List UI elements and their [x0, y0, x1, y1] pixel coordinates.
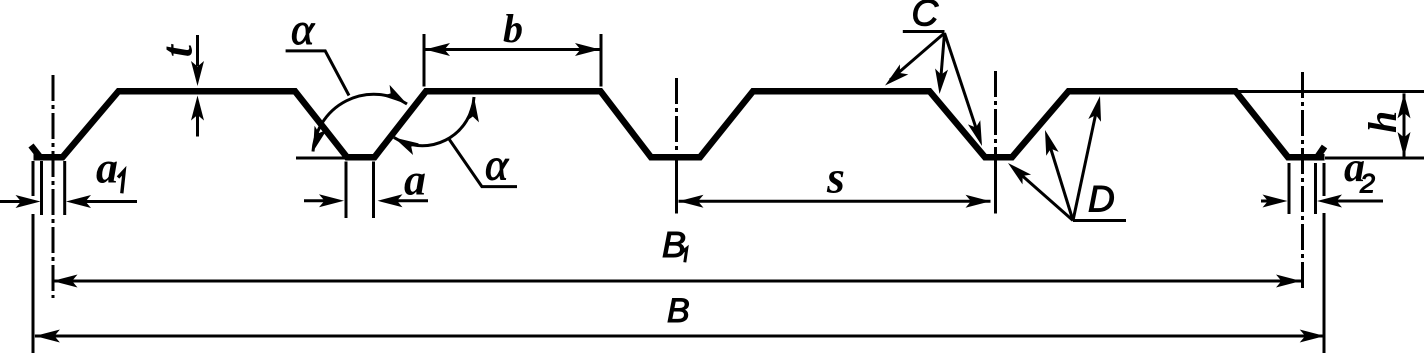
svg-text:B: B	[662, 224, 686, 265]
svg-text:b: b	[503, 6, 523, 51]
alpha1 label underline + leader	[286, 51, 349, 96]
dimension t lower arrow	[191, 96, 204, 121]
dimension h top arrowhead	[1398, 93, 1411, 118]
C leader arrow to bottom corner	[945, 33, 979, 134]
angle alpha2 arc	[394, 97, 474, 146]
a1 left extension x=41.5	[40, 161, 43, 215]
right trough centerline dash-dot x=1302.5	[1301, 72, 1304, 288]
svg-text:h: h	[1360, 111, 1405, 133]
alpha2 arc left arrowhead	[391, 132, 419, 155]
dimension b right arrowhead	[575, 43, 600, 56]
dimension s right arrowhead	[966, 195, 991, 208]
dimension h line	[1403, 93, 1406, 157]
svg-text:s: s	[826, 151, 845, 202]
C label underline	[903, 30, 945, 33]
angle alpha1 arc	[313, 94, 407, 151]
valley2 left horizontal extension	[296, 157, 346, 160]
svg-text:B: B	[667, 292, 690, 330]
D leader arrow to trough corner	[1018, 172, 1073, 221]
a1 right extension x=64.7	[63, 161, 66, 215]
D leader arrow to web	[1049, 143, 1073, 221]
svg-text:2: 2	[1359, 169, 1375, 199]
C leader arrow to crest	[890, 33, 945, 80]
crest level extension line right	[1237, 90, 1424, 93]
dimension a2 left arrow	[1261, 200, 1277, 203]
profile sheet polyline	[34, 91, 1325, 157]
dimension B left arrowhead	[35, 330, 60, 343]
a dim extension lines	[345, 162, 348, 219]
left edge lip	[31, 146, 40, 158]
svg-text:D: D	[1088, 179, 1115, 220]
a2 extension lines	[1288, 163, 1291, 214]
right B extension x=1324	[1323, 163, 1326, 353]
svg-text:α: α	[485, 140, 509, 189]
C leader arrow to top corner	[941, 33, 945, 82]
dimension B1 line	[53, 280, 1302, 283]
alpha1 arc lower arrowhead	[307, 126, 327, 154]
dimension t stems	[196, 35, 199, 137]
dimension a right arrow	[378, 194, 403, 207]
dimension b left arrowhead	[425, 43, 450, 56]
dimension a1 left arrow	[0, 200, 29, 203]
trough3 centerline dash-dot x=676.5	[675, 78, 678, 160]
dimension B1 left arrowhead	[53, 275, 78, 288]
left B extension line x=33	[32, 161, 35, 353]
dimension a1 right arrow	[66, 195, 91, 208]
dimension h bottom arrowhead	[1398, 132, 1411, 157]
left trough centerline dash-dot x=53	[52, 75, 55, 298]
dimension s line	[679, 200, 991, 203]
trough4 centerline dash-dot x=995.5	[994, 71, 997, 160]
svg-text:C: C	[912, 0, 939, 34]
dimension B right arrowhead	[1300, 330, 1325, 343]
dimension a left arrow	[304, 199, 333, 202]
alpha2 arc top arrowhead	[466, 97, 481, 123]
dimension s left arrowhead	[679, 195, 704, 208]
label B1 subscript 1	[680, 248, 687, 262]
svg-text:a: a	[404, 155, 426, 204]
dimension b line	[425, 48, 600, 51]
svg-text:a: a	[96, 143, 118, 192]
dimension B1 right arrowhead	[1276, 275, 1301, 288]
dimension a2 right arrow	[1317, 195, 1342, 208]
D leader arrow to crest	[1073, 108, 1097, 221]
dimension B line	[35, 335, 1325, 338]
dimension t upper arrow	[191, 61, 204, 86]
b extension lines	[423, 34, 426, 87]
alpha2 leader + underline	[449, 139, 517, 187]
svg-text:α: α	[291, 5, 315, 54]
right edge lip	[1317, 147, 1325, 158]
svg-text:t: t	[153, 43, 202, 57]
trough level extension line right	[1325, 157, 1424, 160]
D label underline	[1073, 219, 1126, 222]
label a1 subscript 1	[118, 171, 124, 194]
alpha1 arc upper arrowhead	[382, 85, 410, 110]
